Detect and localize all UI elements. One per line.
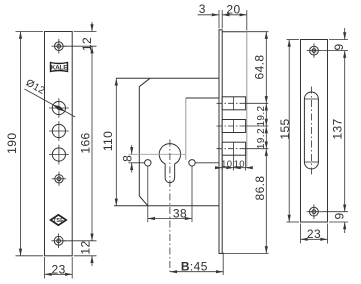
svg-text:155: 155 (278, 118, 292, 139)
svg-text:110: 110 (101, 131, 115, 151)
svg-text:12: 12 (79, 240, 93, 254)
svg-text:9: 9 (332, 43, 346, 50)
svg-text:137: 137 (331, 118, 345, 139)
svg-text:20: 20 (226, 2, 240, 16)
svg-text:8: 8 (120, 155, 134, 162)
svg-text:19.2: 19.2 (256, 105, 267, 126)
svg-text:KALE: KALE (51, 65, 68, 72)
svg-text:B:45: B:45 (181, 260, 208, 274)
svg-text:166: 166 (79, 132, 93, 153)
svg-text:9: 9 (333, 212, 347, 219)
svg-text:190: 190 (5, 133, 19, 154)
svg-text:23: 23 (52, 262, 66, 276)
svg-text:10: 10 (221, 159, 232, 170)
svg-text:3: 3 (199, 2, 206, 16)
svg-text:Ø12: Ø12 (24, 78, 47, 97)
svg-text:12: 12 (80, 37, 94, 51)
svg-text:19.2: 19.2 (256, 128, 267, 149)
svg-text:86.8: 86.8 (253, 176, 267, 201)
svg-text:23: 23 (307, 227, 321, 241)
svg-text:10: 10 (234, 159, 245, 170)
svg-text:38: 38 (173, 207, 187, 221)
svg-text:TSE: TSE (53, 218, 64, 224)
svg-text:64.8: 64.8 (253, 55, 267, 80)
